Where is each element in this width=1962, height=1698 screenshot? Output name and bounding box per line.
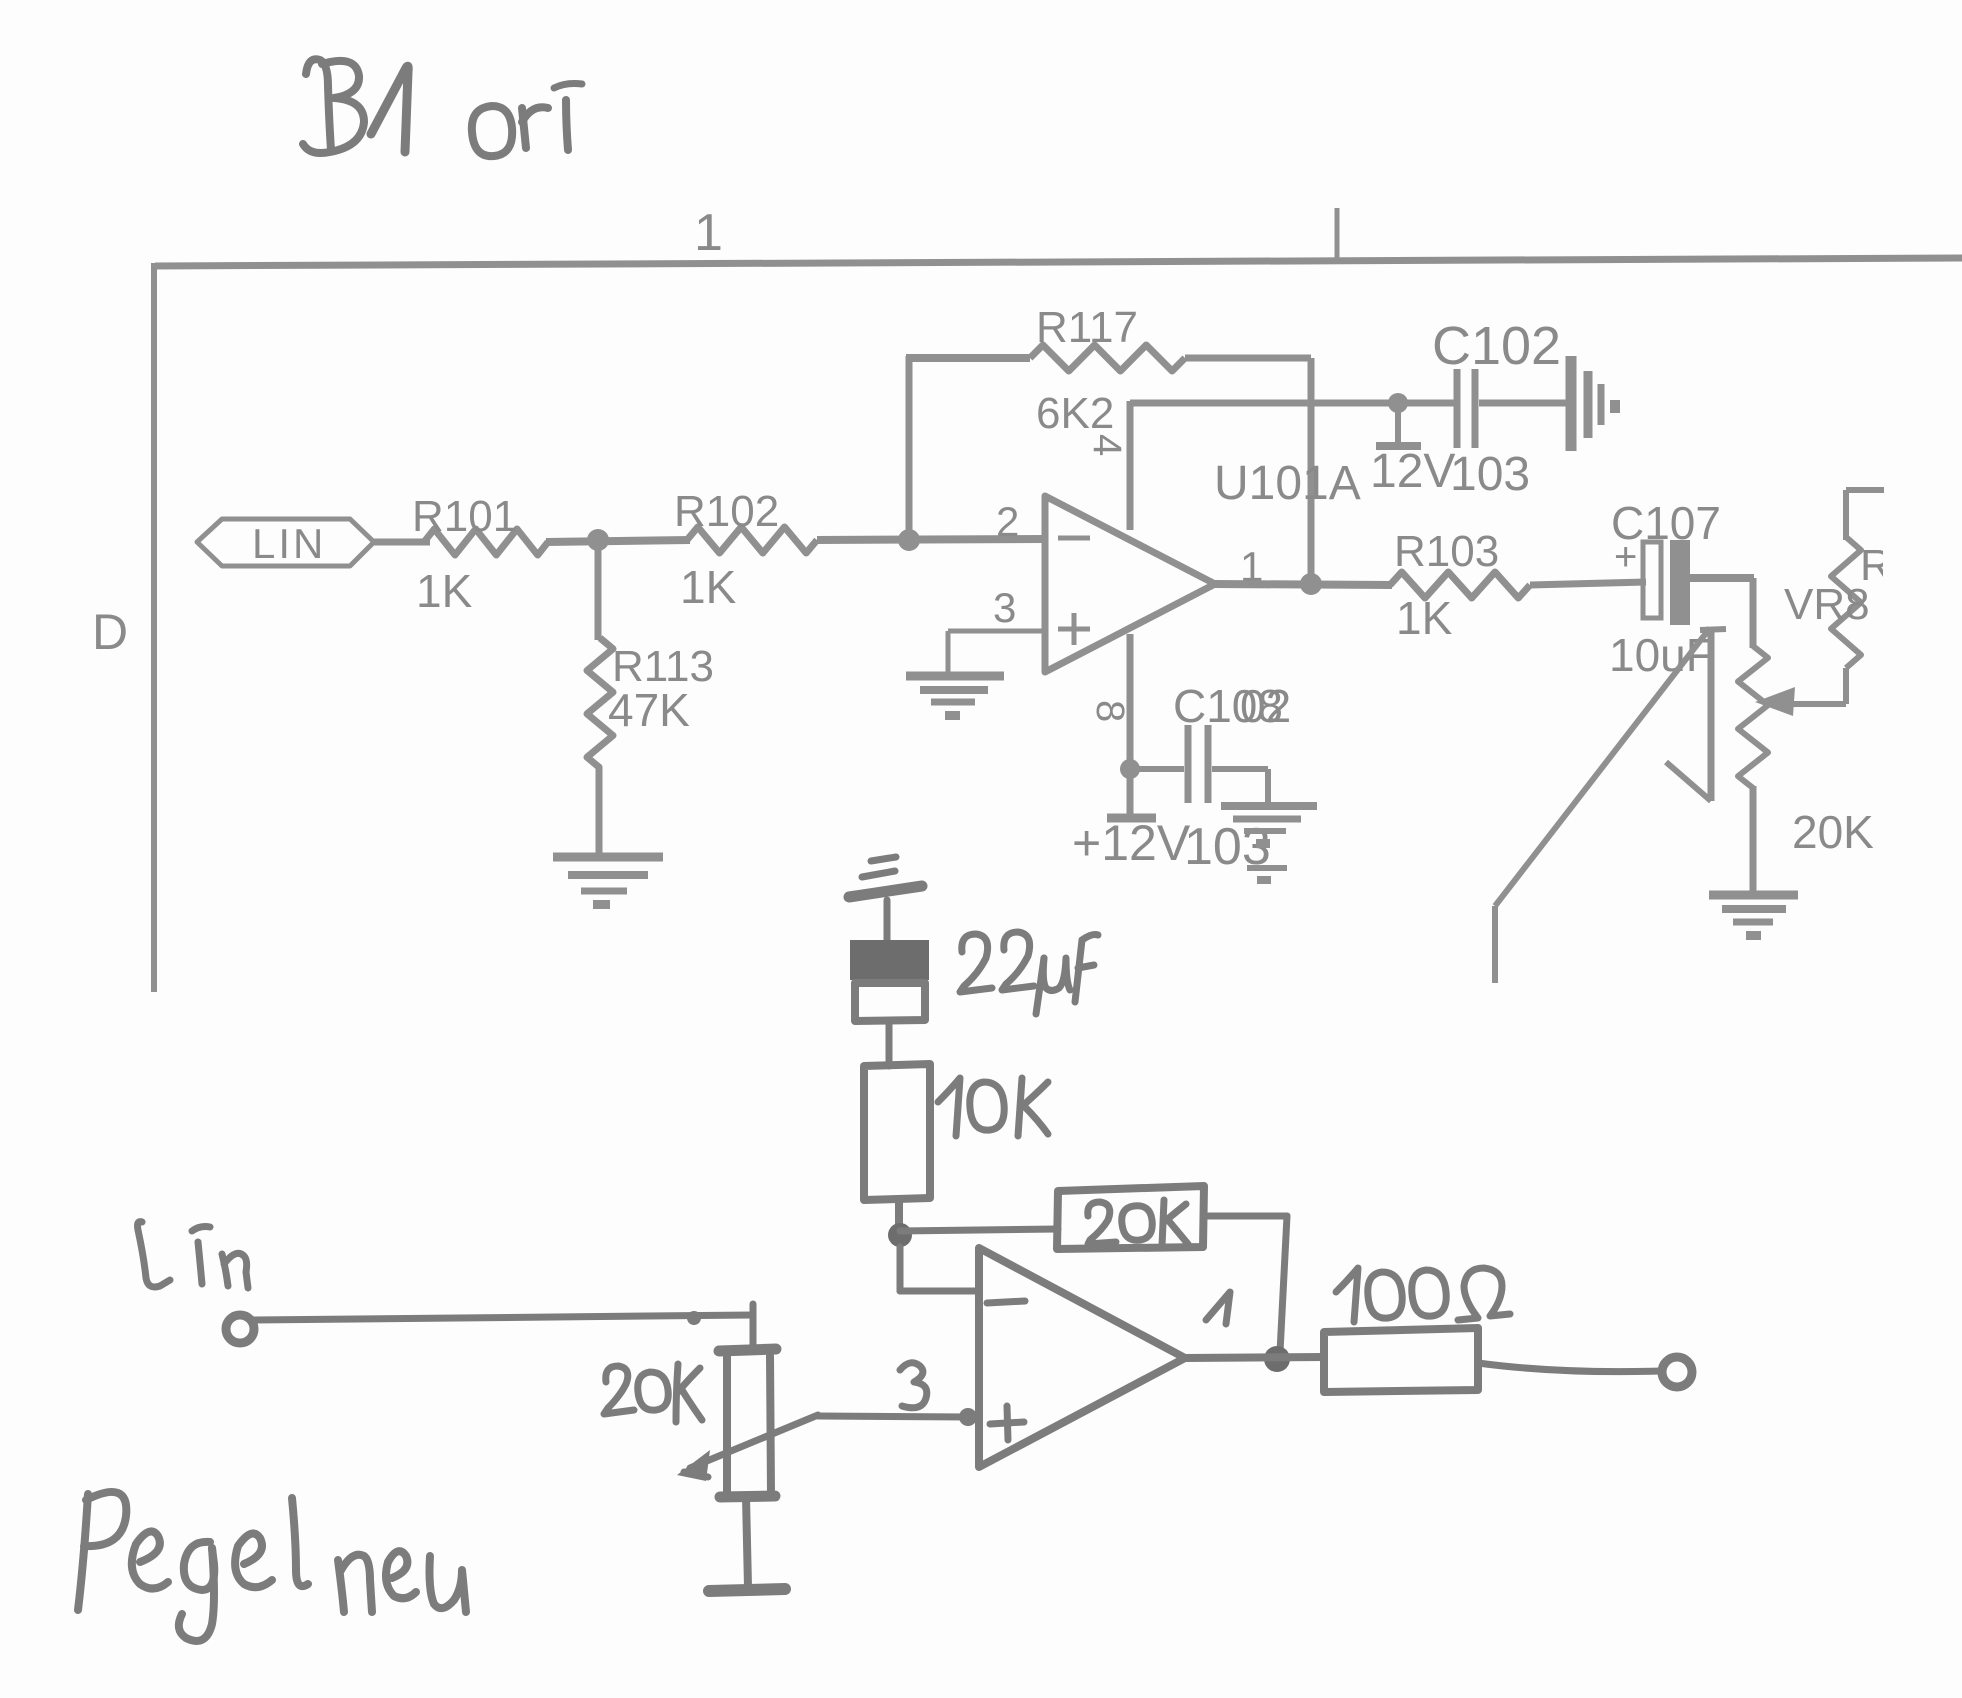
svg-text:C102: C102 xyxy=(1432,316,1561,376)
svg-text:+: + xyxy=(1614,535,1637,579)
pin 3 label handwritten xyxy=(900,1363,927,1408)
wire Lin to pot xyxy=(253,1315,753,1320)
op-amp handwritten xyxy=(979,1248,1185,1467)
handwritten caption B1 ori xyxy=(306,59,331,150)
svg-text:R102: R102 xyxy=(674,487,779,536)
wire R102 to node B and pin 2 xyxy=(817,539,1045,540)
svg-text:+12V: +12V xyxy=(1072,815,1191,871)
svg-text:02: 02 xyxy=(1240,680,1291,732)
wire pot to ground bar xyxy=(746,1497,748,1587)
svg-text:LIN: LIN xyxy=(252,520,326,567)
node E output junction xyxy=(1300,573,1322,595)
svg-text:4: 4 xyxy=(1085,434,1129,456)
wire LIN to R101 xyxy=(374,539,430,546)
wire R103 to C107 xyxy=(1530,582,1646,585)
ground right of C102 xyxy=(1566,356,1577,451)
net label LIN xyxy=(197,519,374,566)
svg-text:8: 8 xyxy=(1088,700,1132,722)
wire node B up to R117 xyxy=(906,356,913,542)
resistor VR8 series xyxy=(1846,487,1884,493)
svg-text:12V: 12V xyxy=(1370,445,1455,498)
caption Pegel neu xyxy=(78,1494,88,1610)
ground bar handwritten xyxy=(709,1589,785,1591)
resistor R102 xyxy=(687,527,817,553)
op-amp U101A xyxy=(1045,496,1215,672)
wire R117 left lead xyxy=(906,354,1030,362)
wire R117 right lead xyxy=(1185,355,1311,362)
supply rail pin 4 wire xyxy=(1130,400,1455,407)
label 100R handwritten xyxy=(1336,1268,1358,1322)
wiper wire VR8 xyxy=(1788,701,1846,707)
wire R101 to node A xyxy=(546,540,690,542)
pin 4 lead xyxy=(1127,401,1134,530)
hand plus sign xyxy=(990,1422,1024,1424)
wire pot to ground xyxy=(1750,786,1757,895)
svg-text:U101A: U101A xyxy=(1214,457,1361,510)
op-amp plus sign xyxy=(1058,627,1090,632)
wire R113 to ground xyxy=(596,766,603,858)
wire 20K feedback to output node xyxy=(1203,1213,1287,1220)
svg-text:D: D xyxy=(92,604,128,660)
op-amp minus sign xyxy=(1058,536,1090,541)
wire wiper to plus input xyxy=(818,1416,979,1418)
ground under pot xyxy=(1709,891,1798,900)
svg-text:R117: R117 xyxy=(1036,303,1138,352)
label 10K handwritten xyxy=(938,1078,960,1136)
resistor R117 xyxy=(1030,345,1185,371)
svg-text:1K: 1K xyxy=(680,561,737,613)
svg-text:1K: 1K xyxy=(416,565,473,617)
potentiometer body 20K xyxy=(1738,646,1768,788)
resistor 10K handwritten xyxy=(864,1064,930,1200)
ground at pin 3 xyxy=(906,672,1004,681)
wire node F to inverting input xyxy=(897,1247,904,1291)
wire op-amp output xyxy=(1215,584,1392,585)
label 22uF handwritten xyxy=(960,934,992,992)
node C junction 12V xyxy=(1388,393,1408,413)
capacitor 22uF xyxy=(851,941,928,979)
wire op-amp out to 100R xyxy=(1185,1357,1324,1358)
input terminal Lin xyxy=(226,1315,254,1343)
label 20K left handwritten xyxy=(604,1366,634,1414)
svg-text:10uF: 10uF xyxy=(1609,629,1714,681)
output terminal xyxy=(1662,1357,1692,1387)
svg-text:20K: 20K xyxy=(1792,806,1874,858)
wire R117 down to output node xyxy=(1308,358,1315,584)
resistor R113 xyxy=(587,638,613,768)
svg-text:103: 103 xyxy=(1450,448,1530,501)
sheet border left edge xyxy=(151,263,157,992)
label Lin handwritten xyxy=(138,1222,171,1287)
label 20K in box xyxy=(1088,1202,1116,1244)
resistor 100R box xyxy=(1324,1328,1478,1392)
svg-text:R101: R101 xyxy=(412,492,517,541)
node G output junction xyxy=(1264,1346,1290,1372)
border zone tick xyxy=(1335,208,1340,263)
svg-text:VR8: VR8 xyxy=(1784,580,1870,629)
svg-text:6K2: 6K2 xyxy=(1036,389,1114,438)
node D junction pin 8 xyxy=(1120,759,1140,779)
wire node F to 20K feedback xyxy=(900,1229,1058,1231)
svg-text:1K: 1K xyxy=(1396,592,1453,644)
potentiometer 20K handwritten xyxy=(719,1349,776,1351)
resistor 20K feedback box xyxy=(1057,1186,1204,1249)
wire terminal to 22uF xyxy=(884,900,891,943)
capacitor C108 xyxy=(1185,725,1192,803)
svg-text:R103: R103 xyxy=(1394,527,1499,576)
wire node A down to R113 xyxy=(595,540,602,640)
terminal above 22uF cap xyxy=(871,857,896,861)
svg-text:1: 1 xyxy=(694,204,723,262)
svg-text:3: 3 xyxy=(993,584,1016,631)
potentiometer wiper arrow xyxy=(690,1415,818,1468)
annotation arrow to C107 node xyxy=(1492,906,1498,983)
pin 1 label handwritten xyxy=(1206,1292,1230,1324)
resistor R101 xyxy=(424,529,548,555)
resistor R103 xyxy=(1390,572,1530,598)
node B junction xyxy=(898,529,920,551)
node A junction xyxy=(587,529,609,551)
wire 10K to node F xyxy=(895,1200,903,1228)
wire 100R to output terminal xyxy=(1478,1363,1661,1372)
ground under R113 xyxy=(553,853,663,862)
wire C107 to VR8 pot xyxy=(1690,574,1754,582)
12V supply stub xyxy=(1395,403,1401,444)
ground under C108 xyxy=(1221,802,1317,810)
svg-text:2: 2 xyxy=(996,498,1019,545)
node F junction xyxy=(888,1223,912,1247)
svg-text:47K: 47K xyxy=(608,684,690,736)
hand minus sign xyxy=(987,1301,1025,1303)
pin 8 lead xyxy=(1127,634,1134,818)
sheet border top edge xyxy=(155,258,1962,266)
wire pin 3 to ground xyxy=(948,629,1045,634)
+12V supply stub xyxy=(1107,814,1156,823)
